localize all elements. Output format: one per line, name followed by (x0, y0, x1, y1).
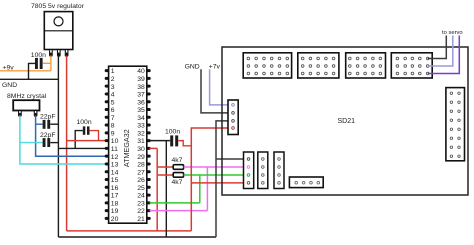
svg-text:35: 35 (137, 107, 145, 114)
wire GND main vertical (regulator pin2 down) (57, 56, 59, 238)
IC pin 23 (147, 201, 151, 204)
wire C4 right to pin10 red (89, 131, 98, 141)
svg-text:18: 18 (111, 200, 119, 207)
wire C3 left stub (cyan) (20, 142, 43, 144)
wire C1 left to GND rail (29, 63, 36, 79)
regulator pin 3 (output) (65, 50, 68, 57)
connector J6 I2C header (wired) (244, 152, 254, 189)
wire gnd label to power conn pin2 (201, 69, 233, 113)
wire red 5v to I2C header pin4 (191, 182, 248, 184)
IC pin 12 (105, 155, 109, 158)
connector J5 servo bank (391, 53, 432, 78)
wire cyan XTAL1: crystal left leg to IC pin 13 (20, 116, 106, 165)
regulator U2 7805 body (44, 12, 73, 50)
IC pin 8 (105, 124, 109, 127)
J1 pin 3 (232, 120, 235, 123)
op IC U1 ATMEGA32 body (109, 66, 147, 223)
svg-text:15: 15 (111, 177, 119, 184)
connector J7 spare header (258, 152, 268, 189)
IC pin 20 (105, 217, 109, 220)
IC pin 31 (147, 139, 151, 142)
svg-text:8: 8 (111, 123, 115, 130)
crystal X1 body (13, 100, 39, 110)
capacitor C1 100n bars (35, 58, 38, 69)
connector J1 power header (228, 100, 238, 135)
svg-text:5: 5 (111, 99, 115, 106)
J1 pin 1 (232, 104, 235, 107)
svg-text:+7v: +7v (209, 63, 221, 70)
IC pin 11 (105, 147, 109, 150)
svg-text:8MHz crystal: 8MHz crystal (7, 93, 47, 100)
IC pin 39 (147, 77, 151, 80)
svg-text:9: 9 (111, 130, 115, 137)
IC pin 30 (147, 147, 151, 150)
IC pin 27 (147, 170, 151, 173)
svg-text:27: 27 (137, 169, 145, 176)
capacitor C2 22pF bars (43, 120, 46, 129)
IC pin 16 (105, 186, 109, 189)
svg-text:32: 32 (137, 130, 145, 137)
IC pin 35 (147, 108, 151, 111)
svg-text:38: 38 (137, 84, 145, 91)
svg-text:4k7: 4k7 (172, 157, 183, 164)
svg-text:10: 10 (111, 138, 119, 145)
IC pin 10 (105, 139, 109, 142)
svg-text:21: 21 (137, 216, 145, 223)
wire gnd drop from pin31 row (165, 141, 167, 237)
connector J2 servo bank (243, 53, 291, 78)
crystal pin B (34, 110, 37, 116)
svg-text:ATMEGA32: ATMEGA32 (122, 129, 131, 167)
wire red 5v bottom rail (67, 230, 192, 232)
IC pin 34 (147, 116, 151, 119)
wire red to R2 pullup (157, 174, 173, 176)
IC pin 19 (105, 209, 109, 212)
svg-text:7: 7 (111, 115, 115, 122)
svg-text:11: 11 (111, 146, 118, 153)
regulator pin 2 (gnd) (58, 50, 61, 57)
svg-text:19: 19 (111, 208, 119, 215)
wire C5 right to 5v (red jog) (178, 141, 191, 146)
wire blue XTAL2: crystal right leg to IC pin 12 (36, 116, 106, 157)
wire orange up to regulator input (50, 56, 52, 71)
wire magenta SCL: R1 to SD21 I2C header (184, 166, 249, 168)
IC pin 4 (105, 92, 109, 95)
svg-text:SD21: SD21 (338, 118, 356, 125)
capacitor C4 100n bars (83, 126, 86, 134)
IC pin 17 (105, 194, 109, 197)
svg-text:100n: 100n (165, 129, 180, 136)
wire servo signal (black) (428, 36, 447, 59)
IC pin 18 (105, 201, 109, 204)
wire magenta vertical to pin22 (206, 167, 208, 211)
svg-text:36: 36 (137, 99, 145, 106)
wire C1 right to orange (43, 62, 51, 64)
wire servo gnd (violet) (428, 36, 460, 74)
wire red vertical (pin30 to bottom rail) (156, 148, 158, 231)
wire gnd dark vertical right (216, 121, 233, 237)
wire servo 5v (periwinkle) (428, 36, 453, 67)
svg-text:23: 23 (137, 200, 145, 207)
IC pin 13 (105, 162, 109, 165)
svg-text:4: 4 (111, 92, 115, 99)
svg-text:6: 6 (111, 107, 115, 114)
wire IC pin31 gnd to C5 (150, 140, 171, 142)
crystal pin A (19, 110, 22, 116)
svg-text:20: 20 (111, 216, 119, 223)
svg-text:28: 28 (137, 162, 145, 169)
svg-text:33: 33 (137, 123, 145, 130)
IC pin 6 (105, 108, 109, 111)
svg-text:7805 5v regulator: 7805 5v regulator (31, 3, 85, 10)
svg-text:17: 17 (111, 193, 119, 200)
wire C2 right stub to GND (50, 123, 58, 125)
svg-text:GND: GND (2, 82, 17, 89)
svg-text:22pF: 22pF (40, 114, 56, 121)
IC pin 37 (147, 92, 151, 95)
svg-text:30: 30 (137, 146, 145, 153)
IC pin 28 (147, 162, 151, 165)
svg-text:13: 13 (111, 162, 119, 169)
IC pin 14 (105, 170, 109, 173)
resistor R2 4k7 (173, 173, 183, 178)
svg-text:14: 14 (111, 169, 119, 176)
IC pin 24 (147, 194, 151, 197)
svg-text:1: 1 (111, 68, 115, 75)
svg-text:34: 34 (137, 115, 145, 122)
connector J4 servo bank (346, 53, 386, 78)
svg-text:40: 40 (137, 68, 145, 75)
wire green SDA: R2 to SD21 I2C header (184, 174, 249, 176)
svg-text:39: 39 (137, 76, 145, 83)
wire +9v rail (orange) (0, 70, 51, 72)
wire red 5v riser to power conn pin4 (191, 128, 233, 231)
IC pin 26 (147, 178, 151, 181)
IC pin 1 (105, 69, 109, 72)
IC pin 22 (147, 209, 151, 212)
regulator pin 1 (input) (50, 50, 53, 57)
wire gnd to IC pin 11 (58, 147, 106, 149)
svg-text:16: 16 (111, 185, 119, 192)
IC pin 36 (147, 100, 151, 103)
wire GND rail (0, 78, 58, 80)
capacitor C3 22pF bars (43, 138, 46, 147)
wire red 5v to IC pin 10 (67, 140, 106, 142)
capacitor C5 100n bars (170, 135, 173, 146)
IC pin 38 (147, 85, 151, 88)
IC pin 32 (147, 131, 151, 134)
wire red to R1 pullup (157, 166, 173, 168)
connector J10 right header (446, 88, 465, 161)
IC pin 2 (105, 77, 109, 80)
wire C3 right stub to GND (50, 142, 58, 144)
IC pin 40 (147, 69, 151, 72)
svg-text:31: 31 (137, 138, 145, 145)
wire red 5v from regulator output down (66, 56, 68, 231)
IC pin 21 (147, 217, 151, 220)
IC pin 7 (105, 116, 109, 119)
IC pin 9 (105, 131, 109, 134)
connector J9 horizontal header (289, 177, 323, 188)
IC pin 15 (105, 178, 109, 181)
IC pin 5 (105, 100, 109, 103)
IC pin 33 (147, 124, 151, 127)
wire magenta to IC pin 22 (150, 210, 208, 212)
svg-text:25: 25 (137, 185, 145, 192)
svg-text:GND: GND (185, 63, 200, 70)
svg-text:29: 29 (137, 154, 145, 161)
svg-text:2: 2 (111, 76, 115, 83)
connector J3 servo bank (298, 53, 339, 78)
svg-text:37: 37 (137, 92, 145, 99)
svg-text:3: 3 (111, 84, 115, 91)
J1 pin 4 (232, 127, 235, 130)
svg-text:12: 12 (111, 154, 119, 161)
wire IC pin30 avcc to red vertical (150, 147, 158, 149)
wire +7v to power conn pin1 (210, 69, 233, 105)
wire C2 left stub (blue) (36, 123, 43, 125)
wire green vertical to pin23 (199, 175, 201, 203)
svg-text:100n: 100n (77, 119, 92, 126)
svg-text:26: 26 (137, 177, 145, 184)
wire gnd to I2C header pin1 (216, 158, 249, 160)
J1 pin 2 (232, 112, 235, 115)
wire C4 left to pin11 gnd row (75, 131, 83, 149)
SD21 board outline (222, 47, 468, 195)
svg-text:24: 24 (137, 193, 145, 200)
IC pin 29 (147, 155, 151, 158)
svg-text:100n: 100n (31, 52, 46, 59)
svg-text:4k7: 4k7 (172, 179, 183, 186)
IC pin 3 (105, 85, 109, 88)
IC pin 25 (147, 186, 151, 189)
wire GND bottom rail (58, 236, 216, 238)
svg-text:22: 22 (137, 208, 145, 215)
wire green to IC pin 23 (150, 202, 200, 204)
resistor R1 4k7 (173, 165, 183, 170)
svg-text:22pF: 22pF (40, 132, 56, 139)
connector J8 spare header (274, 152, 284, 189)
svg-text:to servo: to servo (442, 30, 463, 36)
